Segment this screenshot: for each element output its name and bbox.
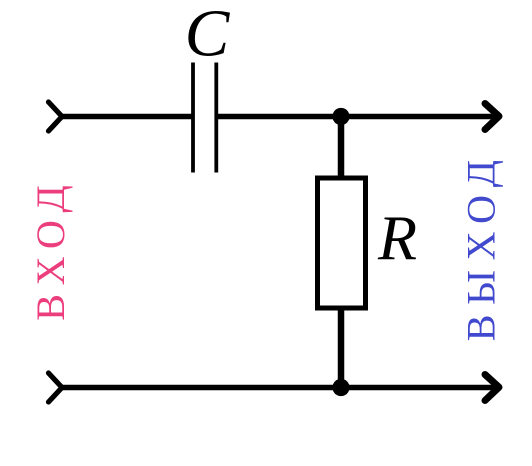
input arrow top (chevron) <box>49 102 63 131</box>
wire top-left (input to capacitor) <box>62 114 193 120</box>
capacitor C right plate <box>214 63 218 173</box>
resistor R body <box>318 178 366 308</box>
wire vertical (top node to resistor) <box>338 117 345 181</box>
svg-text:R: R <box>377 203 417 274</box>
capacitor C left plate <box>191 63 195 173</box>
node junction dot top <box>332 108 349 125</box>
input arrow bottom (chevron) <box>49 373 63 402</box>
output arrow top <box>485 104 499 130</box>
node junction dot bottom <box>332 379 349 396</box>
svg-text:C: C <box>185 0 231 71</box>
wire top-right (capacitor to output) <box>216 114 498 120</box>
wire vertical (resistor to bottom node) <box>338 306 345 388</box>
output arrow bottom <box>485 375 499 401</box>
wire bottom <box>62 385 498 391</box>
